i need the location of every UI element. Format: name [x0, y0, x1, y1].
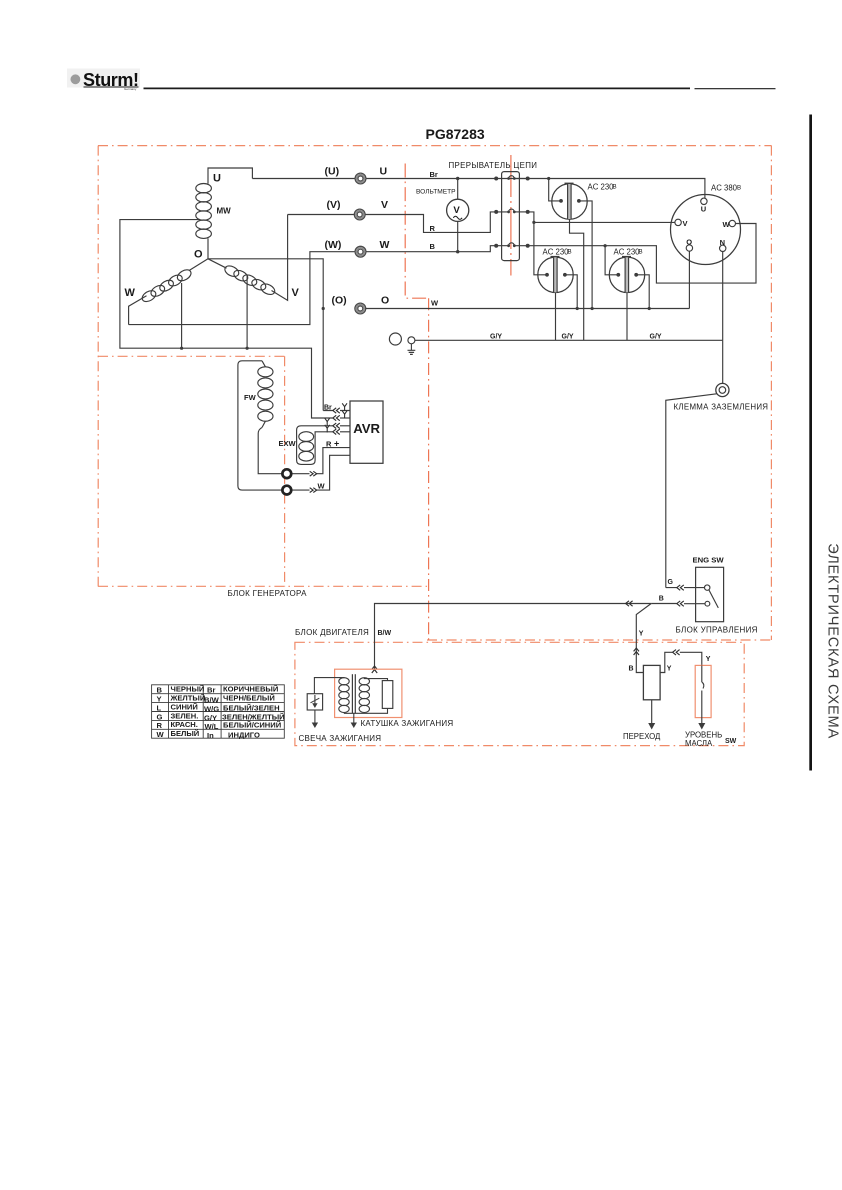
svg-text:MW: MW — [217, 207, 232, 216]
wire AC380 O pin to neutral — [688, 251, 690, 308]
wire W phase (bus to terminal) — [129, 252, 356, 325]
svg-text:W: W — [723, 220, 731, 229]
wire U phase branch to socket X1 — [549, 179, 562, 201]
wire O link from star point — [208, 259, 323, 411]
svg-text:G/Y: G/Y — [204, 713, 217, 722]
wire Y (transition to oil level switch) — [660, 652, 702, 672]
terminal (V) — [354, 209, 365, 220]
transition box ПЕРЕХОД — [643, 665, 660, 699]
svg-text:СВЕЧА ЗАЖИГАНИЯ: СВЕЧА ЗАЖИГАНИЯ — [299, 734, 382, 743]
AC380 pin U — [701, 198, 707, 204]
svg-text:AC 230: AC 230 — [614, 248, 641, 257]
svg-text:В: В — [737, 185, 741, 192]
svg-text:SW: SW — [725, 738, 737, 745]
wire W phase after breaker — [528, 224, 756, 284]
generator/engine partition (red) — [405, 164, 428, 641]
svg-text:W: W — [157, 730, 165, 739]
junction dot O line — [322, 307, 325, 310]
svg-text:СИНИЙ: СИНИЙ — [171, 702, 198, 711]
terminal (W) — [355, 246, 366, 257]
svg-text:БЛОК ГЕНЕРАТОРА: БЛОК ГЕНЕРАТОРА — [228, 589, 308, 598]
svg-text:O: O — [686, 238, 692, 247]
svg-text:O: O — [381, 295, 389, 307]
junction dots on tap bus — [180, 347, 183, 350]
socket AC230 X3 — [609, 257, 644, 293]
svg-text:AC 230: AC 230 — [543, 248, 570, 257]
wire legend table — [152, 685, 285, 738]
wire V-winding tap — [246, 275, 248, 349]
svg-text:B: B — [659, 595, 664, 602]
terminal (O) — [355, 303, 366, 314]
spare circle — [389, 333, 401, 345]
svg-text:Br: Br — [207, 686, 215, 695]
svg-text:N: N — [720, 238, 725, 247]
svg-text:В: В — [639, 249, 643, 256]
AVR output R+ — [292, 448, 351, 474]
AVR input row 4 — [340, 431, 350, 433]
svg-text:B: B — [430, 242, 436, 251]
ignition bottom bus and ground — [344, 708, 388, 713]
wire W phase branch to socket X3 — [605, 246, 618, 275]
svg-text:W: W — [380, 239, 390, 251]
ignition resistor — [382, 681, 393, 709]
svg-text:PG87283: PG87283 — [426, 126, 485, 142]
svg-text:Y: Y — [639, 631, 644, 638]
right sidebar bar — [809, 115, 812, 771]
ignition coil primary — [314, 678, 349, 714]
svg-text:КОРИЧНЕВЫЙ: КОРИЧНЕВЫЙ — [223, 685, 278, 694]
ignition coil (red box) — [335, 669, 402, 717]
wire U phase — [252, 179, 705, 199]
svg-text:R: R — [157, 721, 163, 730]
svg-text:B: B — [157, 686, 163, 695]
svg-text:V: V — [292, 287, 300, 299]
svg-text:ЭЛЕКТРИЧЕСКАЯ СХЕМА: ЭЛЕКТРИЧЕСКАЯ СХЕМА — [825, 543, 841, 739]
wire MW tap to AVR (row2 feed) — [120, 220, 333, 418]
wire W-winding tap — [181, 283, 183, 348]
socket AC230 X2 — [538, 257, 573, 293]
wire ground terminal to ENG SW — [666, 394, 717, 588]
breaker center line (red) — [510, 155, 512, 276]
svg-text:(U): (U) — [325, 166, 340, 178]
svg-text:(V): (V) — [327, 199, 341, 211]
bus left terminal circle with earth — [408, 337, 415, 344]
socket AC230 X1 — [552, 184, 587, 220]
svg-text:W/G: W/G — [204, 704, 219, 713]
svg-text:W: W — [125, 287, 136, 299]
svg-text:ЧЕРНЫЙ: ЧЕРНЫЙ — [171, 685, 205, 694]
field winding FW — [238, 361, 282, 490]
svg-text:AC 380: AC 380 — [711, 184, 738, 193]
svg-text:ENG SW: ENG SW — [693, 556, 725, 565]
ignition coil secondary — [359, 678, 387, 714]
svg-text:G: G — [668, 579, 674, 586]
svg-text:Germany: Germany — [124, 87, 137, 91]
svg-text:U: U — [701, 205, 706, 214]
wire socket X3 ground — [626, 293, 628, 341]
connector forks — [342, 403, 347, 411]
svg-text:Y: Y — [667, 665, 672, 672]
svg-text:КЛЕММА ЗАЗЕМЛЕНИЯ: КЛЕММА ЗАЗЕМЛЕНИЯ — [674, 403, 769, 412]
exciter winding EXW — [297, 426, 333, 465]
svg-text:Br: Br — [430, 170, 438, 179]
svg-text:L: L — [157, 703, 162, 712]
stator winding V (lower right) — [208, 215, 288, 301]
svg-text:БЕЛЫЙ/ЗЕЛЕН: БЕЛЫЙ/ЗЕЛЕН — [223, 704, 280, 713]
wire socket X2 to neutral — [565, 275, 577, 309]
svg-text:V: V — [453, 205, 460, 216]
ground terminal — [722, 340, 724, 383]
wire neutral O — [366, 308, 689, 310]
svg-text:КАТУШКА ЗАЖИГАНИЯ: КАТУШКА ЗАЖИГАНИЯ — [361, 719, 454, 728]
svg-text:B/W: B/W — [378, 630, 392, 637]
wire B/W from ignition coil to ENG SW — [375, 604, 652, 673]
AC380 pin W — [729, 220, 735, 226]
svg-text:+: + — [334, 439, 339, 449]
generator block outer border (red dash-dot) — [98, 146, 772, 640]
svg-text:V: V — [683, 219, 688, 228]
svg-text:W/L: W/L — [205, 722, 219, 731]
svg-text:AVR: AVR — [353, 421, 380, 436]
AVR input row 2 — [340, 417, 350, 419]
header rule — [144, 87, 776, 89]
svg-text:КРАСН.: КРАСН. — [171, 720, 198, 729]
wire B (W phase to breaker) — [366, 246, 508, 252]
svg-text:ЖЕЛТЫЙ: ЖЕЛТЫЙ — [170, 694, 206, 703]
svg-text:БЛОК УПРАВЛЕНИЯ: БЛОК УПРАВЛЕНИЯ — [676, 626, 758, 635]
svg-text:G/Y: G/Y — [650, 333, 662, 340]
svg-text:FW: FW — [244, 393, 257, 402]
svg-text:R: R — [430, 224, 436, 233]
AC380 pin O — [686, 245, 692, 251]
spark plug — [307, 694, 322, 710]
wire socket X1 to neutral — [579, 201, 592, 309]
excitation block border (red) — [98, 356, 285, 586]
generator block bottom border — [98, 585, 427, 587]
svg-text:ВОЛЬТМЕТР: ВОЛЬТМЕТР — [416, 189, 456, 196]
ground bus G/Y — [415, 339, 723, 341]
svg-text:БЕЛЫЙ: БЕЛЫЙ — [171, 729, 200, 738]
svg-text:ПРЕРЫВАТЕЛЬ ЦЕПИ: ПРЕРЫВАТЕЛЬ ЦЕПИ — [449, 161, 538, 170]
connector ring upper — [282, 469, 291, 478]
svg-text:Y: Y — [157, 695, 162, 704]
Sturm! logo — [67, 69, 140, 92]
AVR U1 — [350, 401, 383, 463]
svg-text:W: W — [318, 481, 326, 490]
wire socket X2 ground — [555, 293, 557, 341]
svg-text:(W): (W) — [325, 239, 342, 251]
svg-text:R: R — [326, 439, 332, 448]
AVR input row 1 (Br) — [323, 410, 350, 412]
svg-text:(O): (O) — [332, 295, 347, 307]
wire socket X1 ground — [570, 219, 584, 340]
connector ring lower — [282, 486, 291, 495]
svg-text:В: В — [568, 249, 572, 256]
wire V phase branch to socket X2 — [534, 222, 547, 274]
svg-text:В: В — [613, 184, 617, 191]
svg-text:ИНДИГО: ИНДИГО — [228, 730, 260, 739]
terminal (U) — [355, 173, 366, 184]
control block bottom border — [427, 639, 772, 641]
svg-text:БЛОК ДВИГАТЕЛЯ: БЛОК ДВИГАТЕЛЯ — [295, 628, 369, 637]
svg-text:G/Y: G/Y — [562, 333, 574, 340]
svg-text:U: U — [213, 173, 221, 185]
wire socket X3 to neutral — [636, 275, 649, 309]
oil level switch (red box) — [695, 665, 711, 717]
stator winding W (lower left) — [129, 259, 208, 325]
svg-text:БЕЛЫЙ/СИНИЙ: БЕЛЫЙ/СИНИЙ — [223, 721, 281, 730]
stator main winding MW — [196, 168, 253, 259]
svg-text:ЧЕРН/БЕЛЫЙ: ЧЕРН/БЕЛЫЙ — [223, 694, 275, 703]
svg-text:Y: Y — [706, 656, 711, 663]
AC380 pin N — [720, 245, 726, 251]
engine block border (red dash-dot) — [295, 642, 744, 745]
wire G (ground to ENG SW) — [666, 587, 705, 589]
svg-text:In: In — [207, 731, 214, 740]
svg-text:B/W: B/W — [204, 696, 220, 705]
wire V phase left segment — [288, 214, 354, 216]
AVR input row 3 — [340, 425, 350, 427]
voltmeter P1 — [447, 179, 469, 252]
svg-text:O: O — [194, 249, 203, 261]
wire AC380 N pin to ground bus — [722, 252, 724, 341]
svg-text:МАСЛА: МАСЛА — [685, 739, 713, 748]
svg-text:B: B — [629, 666, 634, 673]
svg-text:ЗЕЛЕН.: ЗЕЛЕН. — [171, 711, 199, 720]
wire R (V phase to breaker and AC380 V) — [366, 212, 509, 233]
svg-text:V: V — [381, 199, 388, 211]
wire B (to ENG SW lower pin) — [651, 603, 705, 605]
AC380 pin V — [675, 219, 681, 225]
svg-text:AC 230: AC 230 — [588, 183, 615, 192]
svg-text:ПЕРЕХОД: ПЕРЕХОД — [623, 732, 661, 741]
ignition coil core — [351, 674, 353, 713]
svg-text:G: G — [157, 712, 163, 721]
svg-text:EXW: EXW — [279, 439, 297, 448]
wire V phase after breaker — [528, 212, 675, 223]
svg-text:W: W — [431, 299, 439, 308]
svg-text:U: U — [380, 166, 388, 178]
svg-text:G/Y: G/Y — [490, 333, 502, 340]
AVR output W — [292, 455, 351, 490]
socket AC380 X4 — [671, 195, 741, 265]
svg-text:Br: Br — [324, 405, 332, 412]
